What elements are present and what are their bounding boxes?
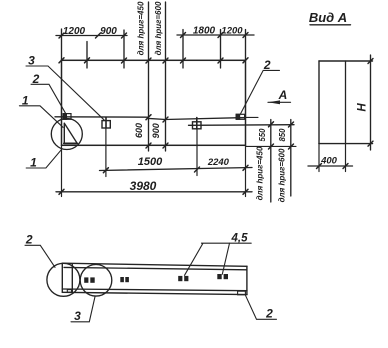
embed row line 2 (through anchor plates, extends right to 550/850 dim lines) — [189, 124, 295, 127]
svg-text:1800: 1800 — [193, 26, 216, 37]
svg-text:900: 900 — [100, 26, 117, 37]
extension line at beam right edge up — [245, 30, 247, 61]
ticks on 1500/2240 dim line — [103, 165, 248, 172]
svg-text:А: А — [278, 88, 288, 102]
label 2 bottom-right leader (side view) — [245, 295, 276, 319]
extension left edge down to 3980 dim — [61, 145, 63, 196]
label 3 leader — [26, 66, 104, 120]
Vid A underline — [310, 24, 351, 26]
svg-text:4,5: 4,5 — [231, 232, 249, 244]
ticks for H dim — [368, 59, 373, 147]
bottom-left corner strip embed — [67, 290, 71, 293]
ticks top dim line — [59, 33, 248, 39]
svg-text:1: 1 — [22, 94, 29, 108]
label 3 leader (side view) — [71, 297, 95, 322]
embed row line 1 (through flat end plates) — [55, 117, 245, 120]
embedded plate (item 3) at x=106 — [102, 118, 110, 128]
side view left end — [61, 263, 63, 292]
side view bottom arris line — [62, 289, 247, 291]
svg-text:1200: 1200 — [63, 26, 86, 37]
embedded plate at x=196 — [193, 118, 202, 129]
detail circle 2 (item 3 embeds) — [80, 265, 112, 297]
svg-text:2: 2 — [265, 307, 273, 321]
side view left end plate line — [71, 265, 73, 293]
label 4,5 leaders (side view) — [185, 243, 252, 275]
svg-text:1200: 1200 — [221, 26, 243, 37]
dim line vertical (600 / для hриг=450) — [148, 2, 150, 151]
right vertical dim line (550) — [270, 120, 272, 203]
svg-text:850: 850 — [278, 128, 287, 142]
extension line x=183 — [182, 30, 184, 69]
extension line x=87 (900 mark at beam top edge) — [86, 42, 88, 69]
corner angle bracket hypotenuse — [65, 124, 77, 143]
label 1 upper leader — [19, 106, 63, 128]
svg-text:600: 600 — [134, 123, 144, 138]
dim line 3980 — [56, 191, 252, 193]
svg-text:для hриг=450: для hриг=450 — [137, 1, 146, 55]
svg-text:для hриг=450: для hриг=450 — [256, 146, 265, 200]
detail callout circle (left end of plan) — [51, 119, 82, 150]
end view inner vertical line — [345, 61, 347, 144]
H dimension line (right edge) — [370, 55, 372, 150]
label 2 top-right leader — [240, 70, 279, 114]
svg-text:для hриг=600: для hриг=600 — [278, 148, 287, 202]
svg-text:для hриг=600: для hриг=600 — [154, 1, 163, 55]
corner angle bracket bottom leg — [64, 142, 78, 144]
embed pair 1 (in circle 2) — [84, 277, 95, 282]
label 1 lower leader — [26, 149, 62, 168]
dim line vertical (900 / для hриг=600) — [165, 2, 167, 151]
label 2 top-left leader (side view) — [25, 245, 55, 267]
svg-text:1: 1 — [30, 155, 37, 169]
svg-text:3: 3 — [74, 309, 81, 323]
ticks on 3980 dim line — [59, 189, 248, 194]
bottom-right corner strip embed (item 2) — [238, 291, 246, 295]
right vertical dim line (850) — [290, 120, 292, 197]
ticks on embed row line crossings — [146, 115, 294, 127]
top dimension line segment right (1800,1200) — [177, 34, 254, 36]
svg-text:3980: 3980 — [130, 179, 157, 193]
embed pair 2 — [120, 277, 129, 282]
right flat embed plate (item 2) at right end — [236, 114, 244, 119]
right embed stub line — [246, 116, 259, 118]
side view top edge — [62, 263, 247, 266]
beam bottom edge extension to right dim lines — [246, 145, 297, 147]
svg-text:2240: 2240 — [207, 157, 230, 168]
corner angle bracket item 1: vertical leg — [63, 123, 65, 142]
svg-text:3: 3 — [28, 54, 35, 68]
svg-text:2: 2 — [32, 72, 40, 86]
detail circle 1 (left end side view) — [47, 263, 80, 296]
svg-text:1500: 1500 — [138, 156, 163, 168]
end view rectangle — [319, 61, 373, 144]
svg-text:400: 400 — [320, 156, 338, 167]
svg-text:Н: Н — [357, 103, 369, 112]
ticks on beam top edge — [59, 58, 248, 63]
svg-text:900: 900 — [151, 123, 161, 138]
view direction arrow A — [268, 100, 291, 104]
extension line at x=61 (beam left edge up to dim line) — [61, 29, 63, 60]
extension line x=220.5 — [220, 30, 222, 69]
side view right end — [246, 266, 248, 294]
svg-text:2: 2 — [263, 58, 271, 72]
extension verticals for 400 dim — [318, 144, 320, 172]
side view bottom edge — [62, 292, 247, 294]
ticks 400 — [317, 164, 349, 169]
label 2 leader — [31, 84, 66, 113]
extension vertical from embed x=197 down to dim — [196, 129, 198, 176]
beam outline (plan view rectangle 3980 long) — [62, 60, 246, 145]
extension vertical from embed x=106 down to 1500 dim — [105, 128, 107, 177]
extension line x=124 — [123, 30, 125, 68]
svg-text:2: 2 — [25, 232, 33, 246]
side view top arris line — [64, 267, 247, 269]
dim line 400 — [308, 165, 353, 167]
svg-text:Вид А: Вид А — [309, 10, 347, 25]
svg-text:550: 550 — [258, 128, 267, 142]
left flat embed plate (item 2) at left end — [63, 114, 71, 120]
embed pair 3 — [178, 276, 188, 281]
embed pair 4 — [217, 274, 228, 279]
ticks at bottom edge crossings of 600/900 dim lines — [146, 143, 294, 149]
dim line 1500 / 2240 — [100, 168, 253, 171]
extension right edge down to 3980 dim — [245, 145, 247, 196]
top dimension line segment left (1200,900) — [56, 35, 127, 37]
